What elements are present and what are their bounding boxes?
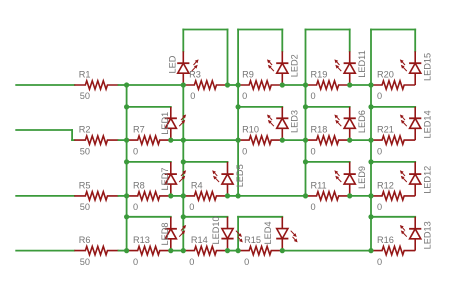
- junction busE-branch4: [368, 214, 373, 219]
- wire row3 busC-busD: [238, 195, 305, 197]
- junction busE-row3: [368, 193, 373, 198]
- wire row4 left: [16, 250, 74, 252]
- svg-text:R12: R12: [377, 180, 394, 190]
- svg-text:LED9: LED9: [357, 166, 367, 189]
- LED LED (cell B1): [167, 51, 198, 85]
- resistor R16: [371, 235, 415, 267]
- svg-text:R18: R18: [311, 125, 328, 135]
- resistor R3: [183, 69, 227, 101]
- wire top rail cell B1: [183, 29, 227, 31]
- junction busB-branch3: [181, 159, 186, 164]
- resistor R6: [74, 235, 118, 267]
- wire branch cell E2: [371, 106, 415, 108]
- junction LED2-row1: [280, 82, 285, 87]
- svg-text:R4: R4: [191, 180, 203, 190]
- svg-text:R9: R9: [242, 69, 254, 79]
- junction busB-row4: [181, 248, 186, 253]
- LED LED1: [160, 107, 186, 140]
- svg-text:LED15: LED15: [423, 53, 433, 81]
- wire bus C lower segment: [237, 217, 239, 251]
- junction busD-branch2: [303, 104, 308, 109]
- svg-text:0: 0: [311, 91, 316, 101]
- wire row4 LED4-busE: [282, 250, 371, 252]
- wire row2 jog-to-R2: [72, 139, 74, 141]
- wire row4 LED8-busB: [171, 250, 184, 252]
- resistor R1: [74, 69, 118, 101]
- LED LED4: [263, 217, 297, 251]
- wire branch cell A4: [127, 216, 171, 218]
- LED LED13: [400, 217, 433, 251]
- svg-text:R3: R3: [189, 69, 201, 79]
- wire bus B vertical: [182, 85, 184, 251]
- junction busE-branch3: [368, 159, 373, 164]
- resistor R18: [306, 125, 350, 157]
- LED LED8: [160, 217, 186, 251]
- svg-text:50: 50: [80, 257, 90, 267]
- svg-text:R15: R15: [244, 235, 261, 245]
- wire top rail cell D1: [306, 29, 350, 31]
- junction LED4-row4: [280, 248, 285, 253]
- junction busA-row4: [124, 248, 129, 253]
- svg-text:LED5: LED5: [235, 164, 245, 187]
- svg-text:0: 0: [377, 257, 382, 267]
- LED LED10: [211, 216, 243, 250]
- junction busC-branch2: [236, 104, 241, 109]
- svg-text:R2: R2: [79, 125, 91, 135]
- resistor R7: [127, 125, 171, 157]
- wire bus E vertical: [370, 30, 372, 251]
- LED LED9: [334, 162, 367, 196]
- wire row2 busB-busC: [183, 139, 238, 141]
- resistor R2: [74, 125, 118, 157]
- LED LED7: [160, 162, 186, 196]
- wire branch cell C2: [238, 106, 282, 108]
- junction busE-branch2: [368, 104, 373, 109]
- svg-text:R20: R20: [377, 69, 394, 79]
- svg-text:LED6: LED6: [357, 110, 367, 133]
- svg-text:0: 0: [242, 146, 247, 156]
- svg-text:0: 0: [133, 257, 138, 267]
- wire branch cell D2: [306, 106, 350, 108]
- wire bus C vertical: [237, 30, 239, 196]
- wire row2 R2-to-busA: [119, 139, 127, 141]
- wire cell E1 right stub: [414, 30, 416, 52]
- wire row2 left upper: [16, 129, 72, 131]
- wire top rail cell E1: [371, 29, 415, 31]
- wire row1 B1right-busC: [228, 84, 239, 86]
- junction LED9-row3: [347, 193, 352, 198]
- junction busA-branch4: [124, 214, 129, 219]
- svg-text:LED3: LED3: [290, 110, 300, 133]
- svg-text:LED8: LED8: [160, 223, 170, 246]
- svg-text:LED12: LED12: [423, 166, 433, 194]
- junction busC-row3: [236, 193, 241, 198]
- junction busA-row1: [124, 82, 129, 87]
- svg-text:R14: R14: [191, 235, 208, 245]
- wire cell B1 right vertical: [227, 30, 229, 86]
- svg-text:R11: R11: [311, 180, 327, 190]
- junction busB-row2: [181, 138, 186, 143]
- svg-text:0: 0: [377, 91, 382, 101]
- svg-text:0: 0: [311, 146, 316, 156]
- svg-text:LED14: LED14: [423, 110, 433, 138]
- resistor R13: [127, 235, 171, 267]
- wire branch cell E3: [371, 161, 415, 163]
- junction LED7-row3: [168, 193, 173, 198]
- wire row2 LED1-busB: [171, 139, 184, 141]
- wire row1 left: [16, 84, 74, 86]
- wire cell C1 right stub: [281, 30, 283, 52]
- wire row1 LED11-busE: [350, 84, 371, 86]
- svg-text:R21: R21: [377, 125, 394, 135]
- LED LED6: [334, 107, 367, 140]
- junction LED11-row1: [347, 82, 352, 87]
- wire row3 left: [16, 195, 74, 197]
- wire bus B top stub: [182, 30, 184, 52]
- wire branch cell A3: [127, 161, 171, 163]
- wire bus D vertical: [305, 30, 307, 196]
- resistor R21: [371, 125, 415, 157]
- junction busE-row2: [368, 138, 373, 143]
- svg-text:0: 0: [133, 146, 138, 156]
- resistor R20: [371, 69, 415, 101]
- resistor R15: [238, 235, 282, 267]
- svg-text:R10: R10: [242, 125, 259, 135]
- junction busA-row3: [124, 193, 129, 198]
- svg-text:LED1: LED1: [160, 112, 170, 135]
- svg-text:R19: R19: [311, 69, 328, 79]
- wire bus A vertical: [126, 85, 128, 251]
- wire branch cell D3: [306, 161, 350, 163]
- junction LED10-row4: [225, 248, 230, 253]
- junction busB-row3: [181, 193, 186, 198]
- svg-text:LED11: LED11: [357, 50, 367, 77]
- svg-text:LED2: LED2: [290, 54, 300, 77]
- wire top rail cell C1: [238, 29, 282, 31]
- wire row4 R6-to-busA: [119, 250, 127, 252]
- LED LED15: [400, 51, 433, 85]
- wire row4 LED10-busC: [228, 250, 239, 252]
- svg-text:0: 0: [189, 257, 194, 267]
- wire cell D1 right stub: [349, 30, 351, 52]
- wire row2 LED3-busD: [282, 139, 305, 141]
- junction busB-branch4: [181, 214, 186, 219]
- wire row1 busA-busB: [127, 84, 184, 86]
- svg-text:R8: R8: [133, 180, 145, 190]
- svg-text:LED10: LED10: [211, 216, 221, 244]
- junction busA-row2: [124, 138, 129, 143]
- junction busC-row4: [236, 248, 241, 253]
- junction busD-row2: [303, 138, 308, 143]
- LED LED5: [212, 162, 245, 196]
- resistor R10: [238, 125, 282, 157]
- junction busE-row1: [368, 82, 373, 87]
- svg-text:0: 0: [133, 202, 138, 212]
- LED LED14: [400, 107, 433, 140]
- wire row3 LED7-busB: [171, 195, 184, 197]
- resistor R14: [183, 235, 227, 267]
- LED LED12: [400, 162, 433, 196]
- junction busC-row1: [236, 82, 241, 87]
- wire row1 R1-to-busA: [119, 84, 127, 86]
- LED LED2: [267, 51, 300, 85]
- wire branch cell C4: [238, 216, 282, 218]
- junction LED8-row4: [168, 248, 173, 253]
- resistor R9: [238, 69, 282, 101]
- svg-text:LED4: LED4: [263, 222, 273, 245]
- wire branch cell B4: [183, 216, 227, 218]
- junction LED5-row3: [225, 193, 230, 198]
- wire row3 R5-to-busA: [119, 195, 127, 197]
- resistor R8: [127, 180, 171, 212]
- resistor R4: [183, 180, 227, 212]
- resistor R19: [306, 69, 350, 101]
- wire branch cell A2: [127, 106, 171, 108]
- svg-text:0: 0: [242, 91, 247, 101]
- svg-text:R5: R5: [79, 180, 91, 190]
- svg-text:LED: LED: [167, 55, 177, 73]
- resistor R12: [371, 180, 415, 212]
- junction busC-row2: [236, 138, 241, 143]
- resistor R11: [306, 180, 350, 212]
- svg-text:R1: R1: [79, 69, 91, 79]
- junction LED3-row2: [280, 138, 285, 143]
- svg-text:0: 0: [190, 91, 195, 101]
- wire row1 LED2-busD: [282, 84, 305, 86]
- svg-text:0: 0: [189, 202, 194, 212]
- svg-text:LED13: LED13: [423, 221, 433, 249]
- wire row3 LED5-busC: [228, 195, 239, 197]
- resistor R5: [74, 180, 118, 212]
- junction LED6-row2: [347, 138, 352, 143]
- svg-text:R6: R6: [79, 235, 91, 245]
- svg-text:0: 0: [311, 202, 316, 212]
- svg-text:50: 50: [80, 202, 90, 212]
- junction busD-row3: [303, 193, 308, 198]
- svg-text:0: 0: [377, 202, 382, 212]
- junction busB-row1: [181, 82, 186, 87]
- junction LED1-row2: [168, 138, 173, 143]
- LED LED11: [334, 50, 367, 85]
- wire branch cell B3: [183, 161, 227, 163]
- svg-text:50: 50: [80, 91, 90, 101]
- junction cellB1-right-row1: [225, 82, 230, 87]
- junction busE-row4: [368, 248, 373, 253]
- junction busA-branch3: [124, 159, 129, 164]
- wire row3 LED9-busE: [350, 195, 371, 197]
- svg-text:50: 50: [80, 146, 90, 156]
- svg-text:R7: R7: [133, 125, 145, 135]
- svg-text:LED7: LED7: [160, 168, 170, 191]
- svg-text:0: 0: [377, 146, 382, 156]
- wire row2 LED6-busE: [350, 139, 371, 141]
- svg-text:R13: R13: [133, 235, 150, 245]
- wire row2 jog down: [71, 130, 73, 140]
- junction busD-row1: [303, 82, 308, 87]
- LED LED3: [267, 107, 300, 140]
- svg-text:0: 0: [244, 257, 249, 267]
- junction busD-branch3: [303, 159, 308, 164]
- wire branch cell E4: [371, 216, 415, 218]
- junction busA-branch2: [124, 104, 129, 109]
- svg-text:R16: R16: [377, 235, 394, 245]
